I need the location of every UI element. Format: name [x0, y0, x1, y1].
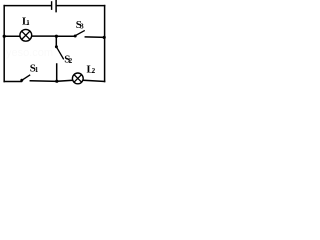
label S1: [30, 63, 39, 75]
svg-text:2: 2: [69, 58, 73, 65]
wire bottom left to S1: [4, 81, 21, 83]
battery cell short plate: [51, 2, 53, 9]
switch S3 pivot dot: [74, 35, 77, 38]
svg-text:3: 3: [80, 23, 84, 30]
junction dot bottom mid: [55, 80, 58, 83]
lamp L2 cross: [74, 75, 81, 82]
label L1: [22, 16, 30, 28]
wire bottom S1 to junction: [30, 80, 57, 83]
svg-text:yeso.com: yeso.com: [6, 47, 53, 59]
wire left border: [3, 6, 5, 82]
wire mid vertical lower: [56, 64, 58, 81]
junction dot right row2: [103, 36, 106, 39]
lamp L2 circle: [72, 73, 83, 84]
wire top left segment: [4, 5, 51, 7]
wire row2 S3 to right border: [85, 36, 104, 39]
wire row2 left border to lamp L1: [4, 35, 19, 37]
wire row2 lamp L1 to mid junction: [32, 35, 56, 37]
wire bottom junction to lamp L2: [57, 80, 72, 81]
svg-text:2: 2: [92, 68, 96, 75]
junction dot left row2: [3, 35, 6, 38]
wire bottom lamp L2 to corner: [84, 80, 105, 81]
lamp L1 cross: [22, 31, 30, 39]
svg-text:1: 1: [26, 20, 30, 27]
label S3: [76, 19, 85, 31]
battery cell tall plate: [55, 0, 57, 11]
label L2: [87, 63, 96, 75]
switch S1 arm: [22, 75, 30, 80]
switch S2 arm: [56, 47, 63, 59]
switch S3 arm: [75, 31, 84, 36]
wire right border: [104, 6, 106, 82]
svg-text:1: 1: [35, 67, 39, 74]
wire row2 mid junction to S3: [56, 35, 74, 37]
switch S1 pivot dot: [20, 79, 23, 82]
label S2: [64, 53, 73, 65]
wire mid vertical upper: [55, 36, 57, 46]
lamp L1 circle: [20, 29, 32, 41]
switch S2 pivot dot: [55, 45, 58, 48]
junction dot mid row2: [55, 35, 58, 38]
wire top right segment: [57, 5, 105, 7]
